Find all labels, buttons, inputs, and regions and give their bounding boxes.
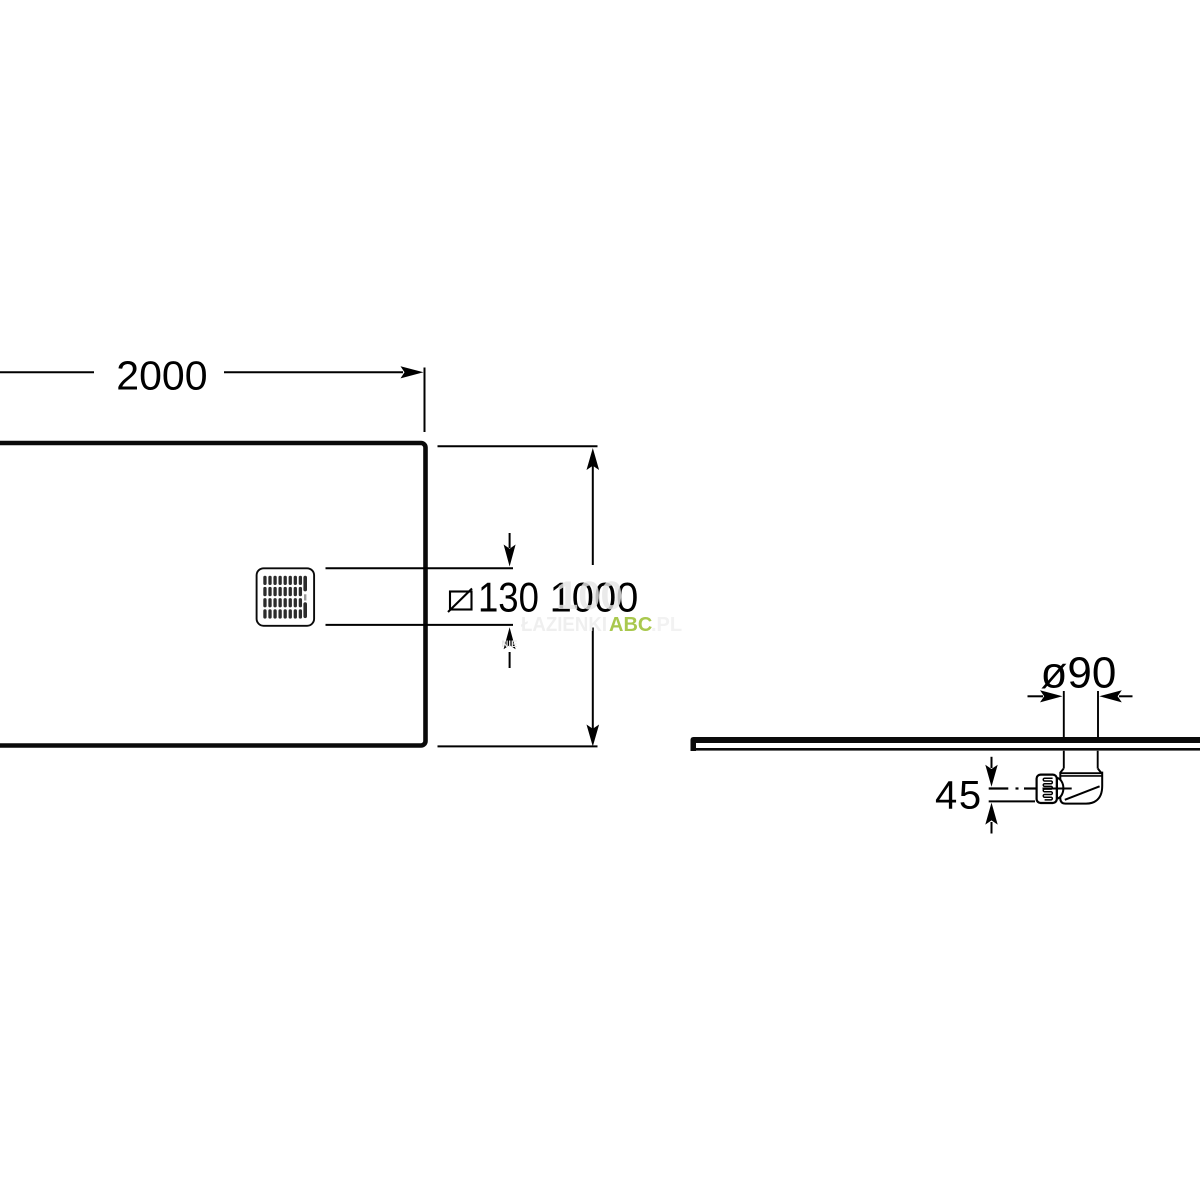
dimension 2000 line left segment — [0, 371, 94, 373]
dimension 45 up arrow — [991, 822, 993, 834]
trap centre line — [1043, 788, 1072, 790]
dimension 2000 extension line — [424, 368, 426, 433]
dimension 90 left extension line — [1063, 691, 1065, 737]
dimension 1000 vertical line lower segment — [592, 628, 594, 737]
svg-text:100: 100 — [556, 574, 623, 618]
trap collar line — [1060, 772, 1102, 774]
dimension 45 centre dash — [989, 787, 1009, 789]
svg-text:45: 45 — [935, 773, 983, 817]
svg-text:.PL: .PL — [651, 614, 682, 636]
dimension 1000 bottom extension line — [438, 745, 598, 747]
side view tray profile bottom line — [696, 748, 1200, 751]
dimension 90 right arrow — [1119, 695, 1133, 697]
tray outline (top view) — [0, 443, 426, 746]
dimension 1000 top extension line — [438, 445, 598, 447]
dimension 130 bottom line — [326, 624, 514, 626]
svg-text:NIE: NIE — [502, 639, 518, 650]
svg-text:ø90: ø90 — [1041, 649, 1117, 698]
trap seam line — [1060, 775, 1102, 777]
dimension 90 right extension line — [1097, 691, 1099, 737]
dimension 2000 arrowhead — [401, 366, 424, 378]
dimension 45 centre dot — [1016, 787, 1019, 789]
dimension 2000 line right segment — [224, 371, 403, 373]
svg-text:ŁAZIENKI: ŁAZIENKI — [521, 614, 607, 636]
dimension 90 left arrow — [1028, 695, 1044, 697]
dimension 1000 lower arrowhead — [587, 725, 600, 747]
drain grate frame — [257, 568, 315, 626]
dimension 130 lower arrow — [509, 652, 511, 668]
drain pipe right wall — [1097, 751, 1099, 769]
dimension 1000 vertical line upper segment — [592, 459, 594, 565]
trap nut — [1037, 775, 1057, 803]
side view tray profile left cap — [691, 737, 697, 751]
dimension 1000 upper arrowhead — [587, 448, 600, 470]
side view tray profile top line — [696, 737, 1200, 743]
svg-text:2000: 2000 — [116, 352, 207, 398]
drain grate slots — [263, 576, 307, 619]
trap diagonal — [1065, 786, 1100, 800]
trap body — [1060, 769, 1102, 804]
trap nut ribs — [1043, 778, 1052, 800]
drain pipe left wall — [1063, 751, 1065, 769]
dimension 45 centre dash 2 — [1024, 787, 1037, 789]
dimension 130 upper arrow — [509, 533, 511, 548]
dimension 130 top line — [326, 567, 514, 569]
svg-text:ABC: ABC — [609, 614, 652, 636]
dimension 45 bottom line — [989, 800, 1035, 802]
trap bulge — [1057, 778, 1063, 799]
dimension 45 down arrow — [991, 757, 993, 768]
square-section symbol — [450, 592, 472, 610]
